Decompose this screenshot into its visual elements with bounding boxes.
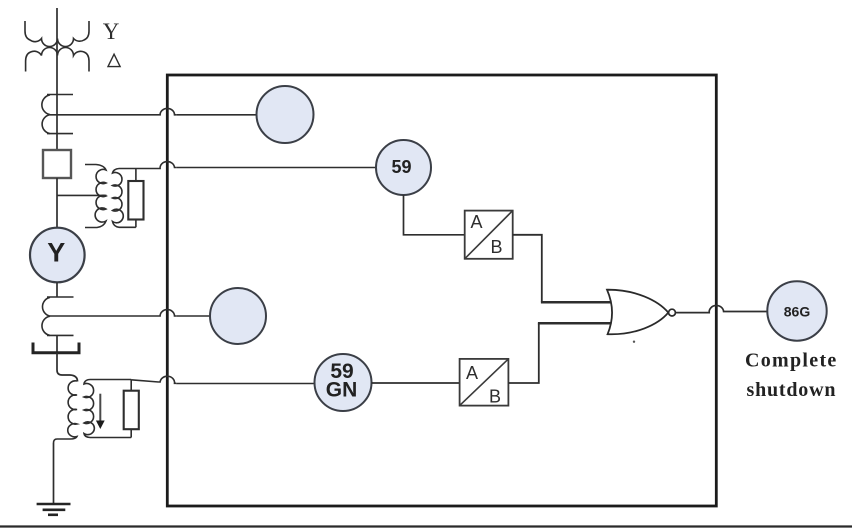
- stray dot: [633, 341, 635, 343]
- PT1 secondary bottom lead: [119, 226, 136, 228]
- resistor R1 bottom stub: [135, 220, 137, 228]
- wire AB1 to NOR gate top input: [513, 235, 614, 302]
- svg-text:A: A: [466, 363, 478, 383]
- transformer T2 primary winding: [54, 381, 78, 443]
- transformer T2 secondary top lead: [90, 379, 131, 381]
- wire bus vertical top: [56, 8, 58, 150]
- wire transformer T2 to ground: [53, 443, 55, 503]
- CT2 arc 2: [42, 316, 50, 335]
- wire w3 CT2 to meter circle 2: [50, 315, 210, 317]
- hop w4 over box edge: [159, 376, 177, 383]
- resistor R2: [124, 391, 139, 430]
- transformer T2 secondary winding: [84, 380, 94, 438]
- wire w4 transformer T2 to relay 59GN: [131, 380, 314, 384]
- svg-text:A: A: [471, 212, 483, 232]
- svg-text:59: 59: [391, 157, 411, 177]
- relay panel boundary box: [167, 75, 716, 506]
- PT1 primary winding: [85, 165, 106, 228]
- resistor R2 top stub: [130, 380, 132, 391]
- A/B converter 2: [460, 359, 509, 407]
- CT2 top stub: [47, 296, 74, 298]
- CT2 bottom stub: [47, 334, 74, 336]
- transformer T1 Y-Delta winding top: [25, 21, 89, 47]
- meter circle 1: [257, 86, 314, 143]
- CT1 arc 2: [42, 115, 50, 134]
- svg-text:B: B: [491, 237, 503, 257]
- wire w2 PT1 to relay 59: [119, 168, 376, 169]
- NOR gate U1: [607, 290, 675, 335]
- transformer T1 Y-Delta winding bottom: [26, 48, 89, 72]
- label Y: [103, 19, 120, 44]
- hop output over box edge: [708, 305, 726, 312]
- hop w1 over box edge: [159, 108, 177, 114]
- ground: [37, 504, 71, 515]
- label Delta: [108, 54, 120, 66]
- generator G circle Y: [30, 228, 85, 283]
- svg-text:B: B: [489, 387, 501, 407]
- CT1 arc 1: [42, 95, 50, 115]
- wire bus square to generator: [56, 178, 58, 228]
- CT1 top stub: [47, 94, 73, 96]
- hop w2 over box edge: [159, 162, 177, 169]
- label Complete shutdown: [745, 349, 838, 401]
- wire relay 59 to AB1: [404, 195, 465, 235]
- relay 59GN circle: [315, 354, 372, 411]
- CT1 bottom stub: [47, 133, 73, 135]
- wire generator to CT2: [56, 282, 58, 297]
- A/B converter 1: [465, 211, 513, 259]
- svg-text:GN: GN: [326, 378, 358, 401]
- PT1 secondary winding: [113, 169, 124, 228]
- resistor R2 bottom stub: [130, 429, 132, 437]
- wire CT2 to neutral bracket: [56, 335, 58, 353]
- lockout relay 86G circle: [767, 281, 826, 340]
- wire bracket to transformer T2: [57, 353, 78, 382]
- transformer T2 arrow: [96, 394, 105, 429]
- wire bus tap to PT1: [57, 194, 107, 196]
- wire w1 CT1 to meter circle 1: [50, 114, 257, 116]
- surge arrester square: [43, 150, 71, 178]
- hop w3 over box edge: [159, 310, 177, 316]
- svg-text:Complete: Complete: [745, 349, 838, 371]
- wire NOR output to 86G: [676, 312, 768, 313]
- neutral bracket: [33, 343, 79, 353]
- CT2 arc 1: [42, 297, 50, 316]
- svg-text:shutdown: shutdown: [747, 379, 837, 401]
- bottom rule: [0, 525, 852, 527]
- transformer T2 secondary bottom lead: [90, 437, 131, 439]
- svg-text:Y: Y: [47, 238, 65, 268]
- meter circle 2: [210, 288, 266, 344]
- resistor R1: [128, 181, 143, 220]
- relay 59 circle: [376, 140, 431, 195]
- wire relay 59GN to AB2: [372, 382, 460, 384]
- svg-text:Y: Y: [103, 19, 120, 44]
- resistor R1 top stub: [135, 169, 137, 182]
- svg-text:86G: 86G: [784, 303, 811, 319]
- wire AB2 to NOR gate bottom input: [508, 323, 613, 383]
